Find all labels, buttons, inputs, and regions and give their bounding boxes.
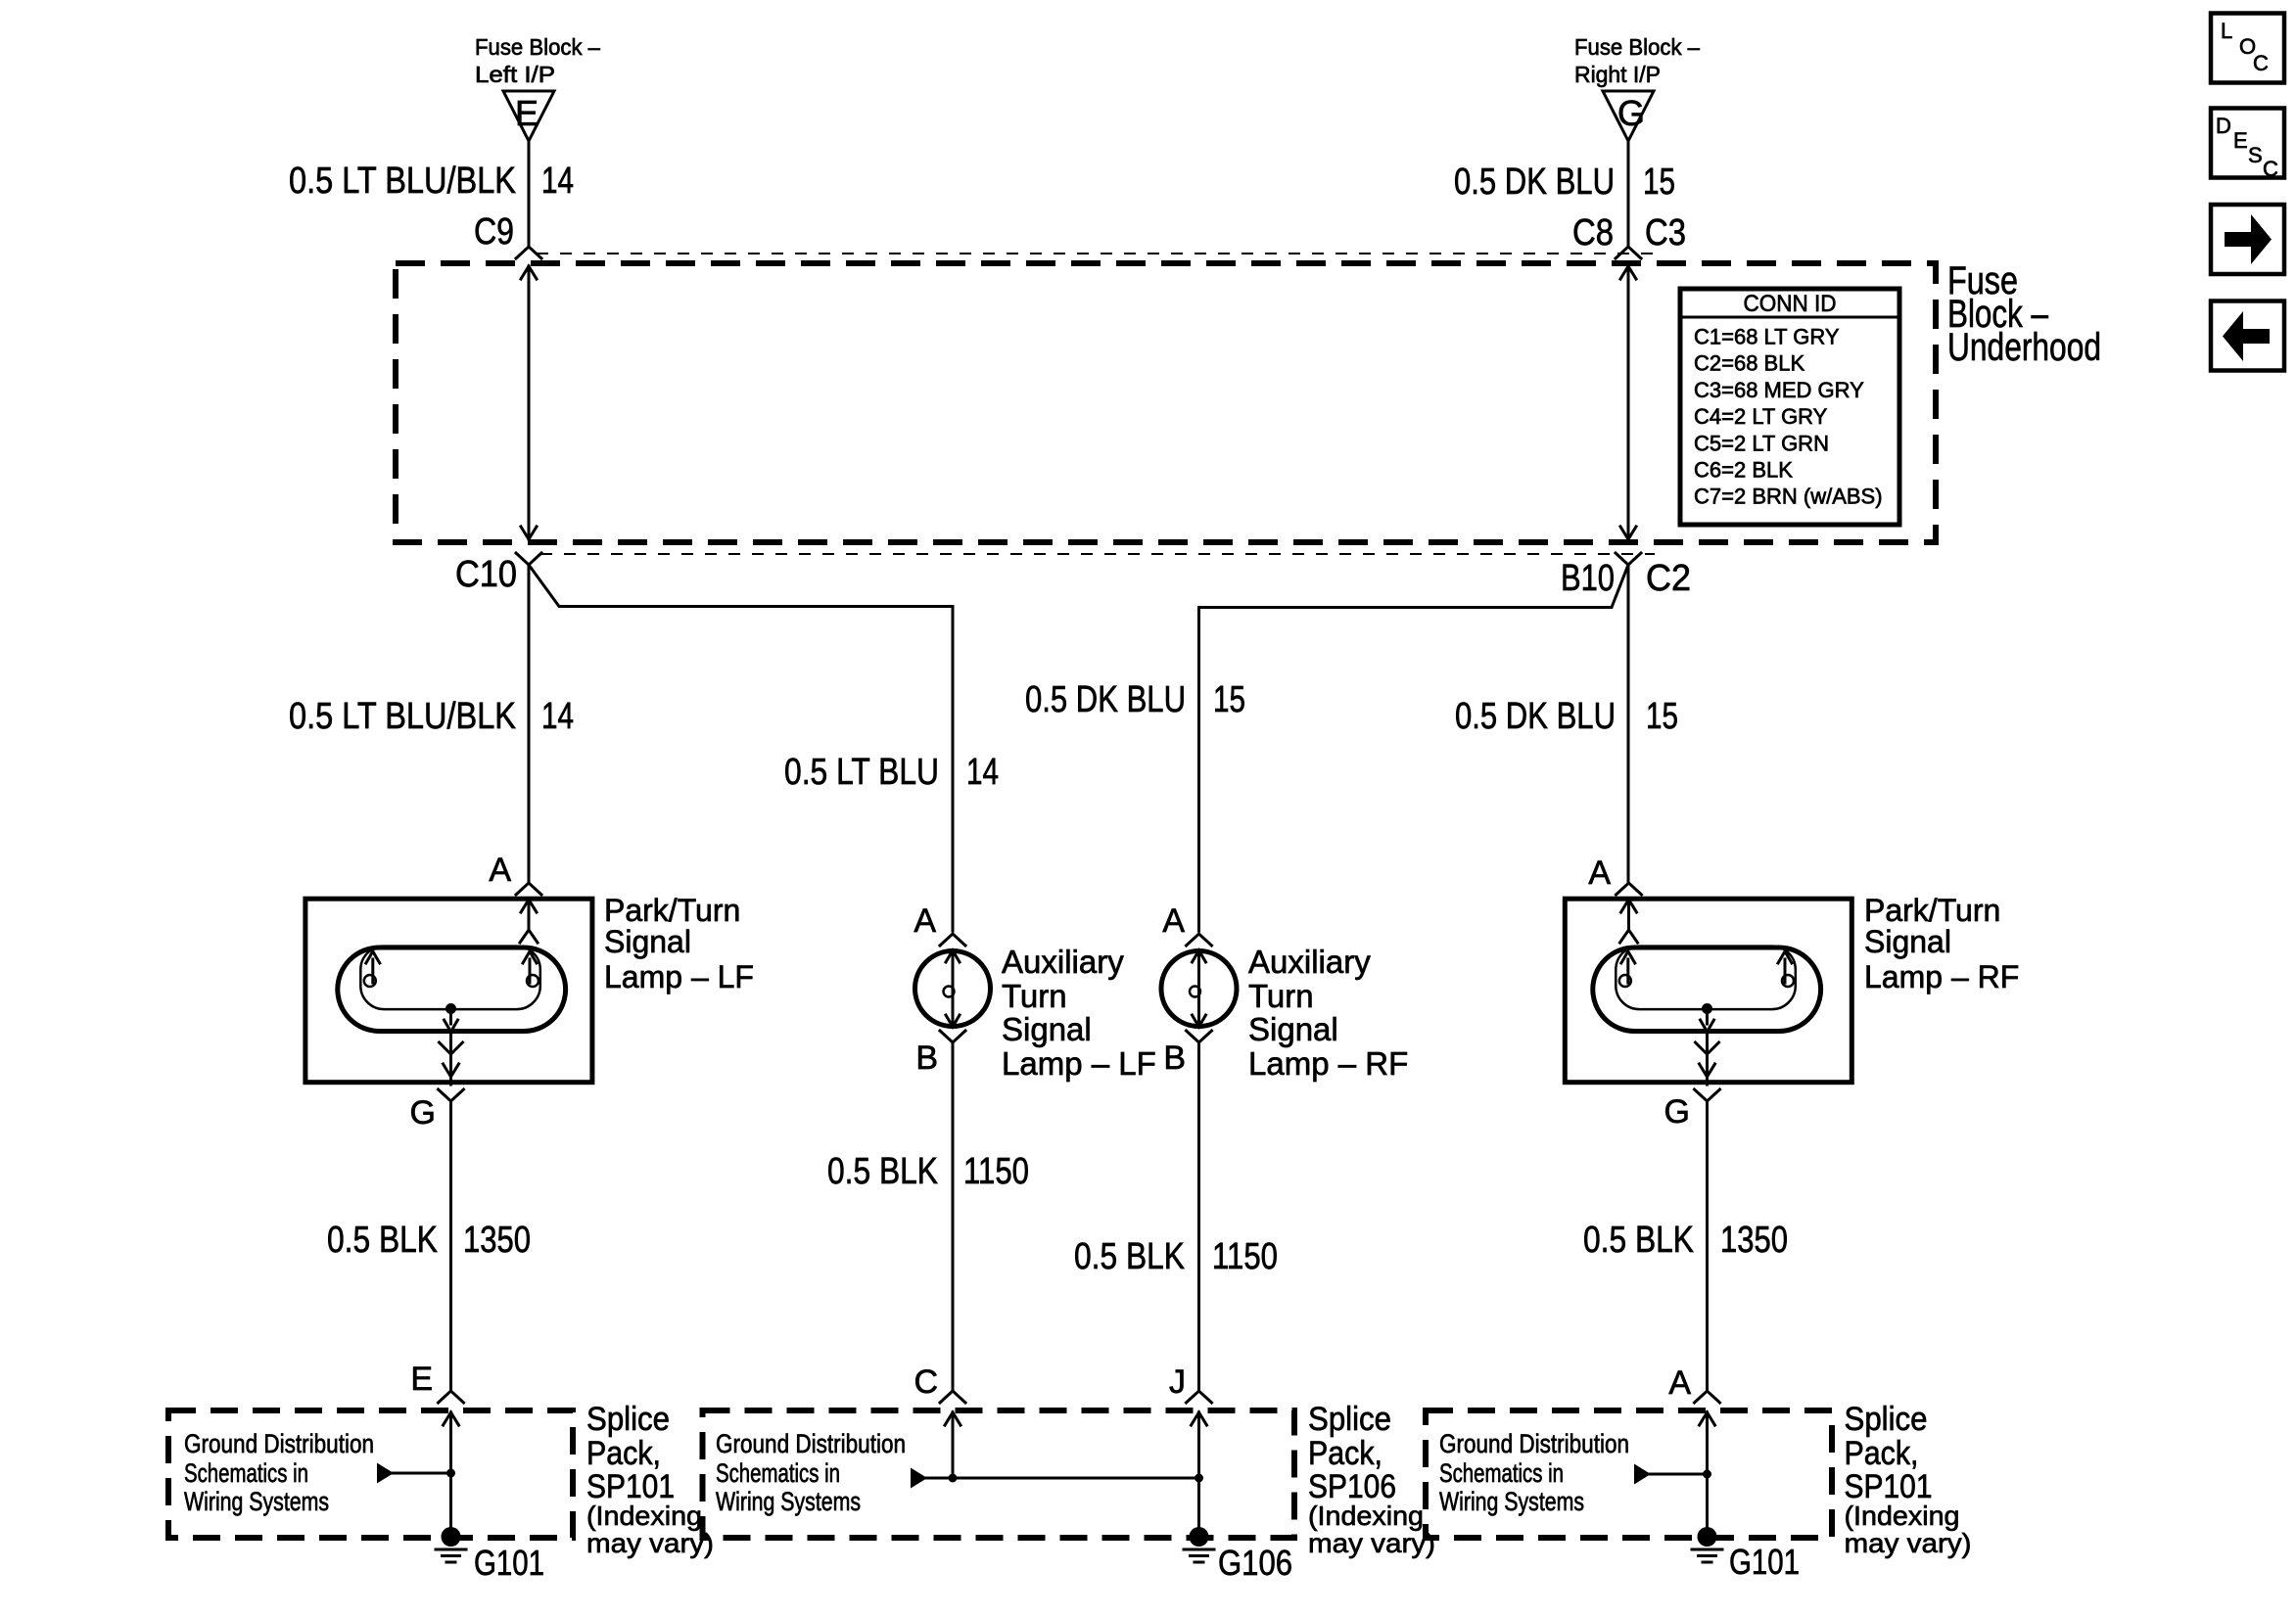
- svg-text:B10: B10: [1561, 558, 1615, 599]
- wire into splice SP101 (right): [1700, 1412, 1715, 1537]
- node B10 / C2 (female connector half): [1561, 553, 1691, 599]
- svg-text:C2=68 BLK: C2=68 BLK: [1694, 351, 1804, 376]
- ground distribution box (right): [1426, 1410, 1832, 1538]
- terminal C at splice pack SP106: [914, 1363, 965, 1403]
- svg-text:Auxiliary: Auxiliary: [1248, 944, 1371, 980]
- wire label 0.5 BLK 1150 (aux LF): [827, 1151, 1029, 1192]
- svg-text:A: A: [489, 852, 511, 889]
- wire 0.5 BLK 1150 from aux LF B to splice C: [952, 1042, 955, 1391]
- svg-text:Wiring Systems: Wiring Systems: [184, 1487, 329, 1516]
- svg-text:1350: 1350: [463, 1220, 531, 1261]
- svg-text:Splice: Splice: [1308, 1401, 1391, 1438]
- svg-text:G: G: [1617, 93, 1645, 133]
- svg-text:J: J: [1169, 1363, 1186, 1401]
- svg-text:0.5 DK BLU: 0.5 DK BLU: [1454, 162, 1615, 203]
- svg-text:Turn: Turn: [1002, 978, 1067, 1014]
- svg-text:1150: 1150: [1212, 1236, 1278, 1277]
- svg-text:Schematics in: Schematics in: [1439, 1458, 1564, 1488]
- wire label 0.5 BLK 1150 (aux RF): [1074, 1236, 1278, 1277]
- svg-text:C5=2 LT GRN: C5=2 LT GRN: [1694, 431, 1829, 455]
- svg-text:14: 14: [966, 752, 999, 793]
- svg-text:Wiring Systems: Wiring Systems: [716, 1487, 861, 1516]
- terminal J at splice pack SP106: [1169, 1363, 1212, 1403]
- terminal G of park/turn lamp RF: [1664, 1089, 1720, 1131]
- ground G101-left: [436, 1527, 544, 1583]
- svg-text:C9: C9: [474, 211, 514, 253]
- svg-text:Fuse Block –: Fuse Block –: [1574, 34, 1700, 60]
- svg-text:0.5 DK BLU: 0.5 DK BLU: [1025, 679, 1186, 720]
- wire 0.5 DK BLU 15 from C2 to lamp RF terminal A: [1627, 565, 1630, 883]
- svg-text:Lamp – RF: Lamp – RF: [1864, 959, 2019, 994]
- svg-text:Auxiliary: Auxiliary: [1002, 944, 1124, 980]
- terminal B of auxiliary lamp LF: [915, 1031, 965, 1077]
- svg-text:Wiring Systems: Wiring Systems: [1439, 1487, 1584, 1516]
- terminal A of auxiliary lamp LF: [914, 902, 965, 946]
- connector symbol G : Fuse Block - Right I/P: [1574, 34, 1700, 141]
- splice SP101 branch arrow (left): [377, 1463, 455, 1484]
- svg-text:Lamp – LF: Lamp – LF: [604, 959, 754, 994]
- svg-text:may vary): may vary): [586, 1528, 714, 1558]
- DESC nav box: [2211, 109, 2284, 182]
- svg-text:0.5 LT BLU/BLK: 0.5 LT BLU/BLK: [289, 161, 516, 202]
- park/turn signal lamp RF: [1565, 893, 2019, 1085]
- svg-text:L: L: [2221, 19, 2232, 43]
- svg-text:Pack,: Pack,: [1308, 1435, 1382, 1472]
- svg-text:Splice: Splice: [1845, 1401, 1928, 1438]
- ground distribution box (center): [703, 1410, 1295, 1538]
- connector line C9/C8 (thin dashed): [537, 253, 1664, 254]
- auxiliary turn signal lamp LF: [915, 944, 1156, 1082]
- svg-text:C2: C2: [1646, 558, 1691, 599]
- svg-text:(Indexing: (Indexing: [586, 1501, 702, 1531]
- fuse block - underhood (dashed outline): [396, 263, 1936, 542]
- svg-text:B: B: [1163, 1039, 1186, 1077]
- svg-text:C: C: [2253, 51, 2269, 75]
- svg-text:15: 15: [1646, 696, 1678, 737]
- wire 0.5 BLK 1350 from lamp RF G to splice A: [1706, 1101, 1709, 1391]
- node C10 (female connector half): [455, 553, 541, 595]
- ground G106: [1184, 1527, 1292, 1583]
- terminal E at splice pack SP101: [410, 1361, 463, 1403]
- connector symbol E : Fuse Block - Left I/P: [475, 34, 600, 141]
- svg-text:0.5 BLK: 0.5 BLK: [1583, 1220, 1694, 1261]
- svg-text:C4=2 LT GRY: C4=2 LT GRY: [1694, 404, 1828, 429]
- svg-text:Ground Distribution: Ground Distribution: [184, 1429, 374, 1458]
- wire into splice SP106 from C: [945, 1412, 961, 1478]
- svg-text:E: E: [515, 93, 539, 133]
- wire inside fuse block C9 to C10: [521, 266, 537, 539]
- splice pack SP101 label (left): [586, 1401, 714, 1558]
- ground distribution box (left): [168, 1410, 573, 1538]
- wire 0.5 BLK 1150 from aux RF B to splice J: [1197, 1042, 1200, 1391]
- splice pack SP106 label: [1308, 1401, 1435, 1558]
- svg-text:S: S: [2248, 143, 2263, 167]
- svg-text:15: 15: [1213, 679, 1245, 720]
- svg-text:Schematics in: Schematics in: [184, 1458, 308, 1488]
- svg-text:C: C: [2263, 157, 2278, 181]
- svg-text:Pack,: Pack,: [1845, 1435, 1919, 1472]
- svg-text:Lamp – LF: Lamp – LF: [1002, 1045, 1156, 1082]
- wire label 0.5 DK BLU 15: [1454, 162, 1675, 203]
- svg-text:C3=68 MED GRY: C3=68 MED GRY: [1694, 378, 1864, 402]
- svg-text:C8: C8: [1572, 212, 1614, 254]
- svg-text:Turn: Turn: [1248, 978, 1314, 1014]
- LOC nav box: [2211, 14, 2284, 83]
- svg-text:Signal: Signal: [1864, 924, 1951, 959]
- svg-text:G101: G101: [1729, 1542, 1800, 1582]
- svg-text:(Indexing: (Indexing: [1308, 1501, 1424, 1531]
- svg-text:0.5 BLK: 0.5 BLK: [827, 1151, 938, 1192]
- wire inside fuse block C3 to B10: [1620, 266, 1636, 539]
- wire 0.5 BLK 1350 from lamp LF G to splice E: [449, 1101, 452, 1391]
- svg-text:Left I/P: Left I/P: [475, 62, 555, 87]
- svg-text:C1=68 LT GRY: C1=68 LT GRY: [1694, 325, 1840, 349]
- svg-text:A: A: [1668, 1364, 1691, 1402]
- svg-text:Pack,: Pack,: [586, 1435, 661, 1472]
- svg-text:D: D: [2216, 114, 2231, 138]
- svg-text:1350: 1350: [1720, 1220, 1788, 1261]
- CONN ID table: [1680, 289, 1899, 525]
- svg-text:Park/Turn: Park/Turn: [604, 893, 740, 928]
- svg-text:(Indexing: (Indexing: [1845, 1501, 1960, 1531]
- svg-text:Signal: Signal: [1248, 1011, 1338, 1047]
- ground G101-right: [1692, 1527, 1800, 1582]
- svg-text:0.5 BLK: 0.5 BLK: [327, 1220, 438, 1261]
- park/turn signal lamp LF: [305, 893, 754, 1085]
- terminal A of auxiliary lamp RF: [1162, 902, 1211, 946]
- connector line C10/B10 (thin dashed): [540, 553, 1655, 555]
- auxiliary turn signal lamp RF: [1161, 944, 1408, 1082]
- node C8 / C3 (female connector half): [1572, 212, 1686, 258]
- next-page arrow box: [2211, 205, 2284, 274]
- wire branch B10 to auxiliary lamp RF (0.5 DK BLU 15): [1199, 565, 1629, 931]
- wire 0.5 LT BLU/BLK circuit 14 (fuse block E to C9): [528, 141, 531, 247]
- svg-text:A: A: [914, 902, 936, 940]
- wire label 0.5 LT BLU 14: [784, 752, 999, 793]
- svg-text:Signal: Signal: [1002, 1011, 1092, 1047]
- wire branch C10 to auxiliary lamp LF (0.5 LT BLU 14): [529, 565, 953, 931]
- wire label 0.5 DK BLU 15 (lamp RF): [1455, 696, 1678, 737]
- svg-text:C: C: [914, 1363, 938, 1401]
- svg-text:G101: G101: [474, 1543, 544, 1583]
- svg-text:Schematics in: Schematics in: [716, 1458, 840, 1488]
- svg-text:0.5 DK BLU: 0.5 DK BLU: [1455, 696, 1616, 737]
- wire label 0.5 LT BLU/BLK 14: [289, 696, 574, 737]
- svg-text:A: A: [1162, 902, 1185, 940]
- svg-text:G: G: [1664, 1093, 1690, 1131]
- svg-text:C10: C10: [455, 554, 517, 595]
- svg-text:0.5 LT BLU/BLK: 0.5 LT BLU/BLK: [289, 696, 516, 737]
- svg-text:Underhood: Underhood: [1947, 326, 2101, 369]
- terminal B of auxiliary lamp RF: [1163, 1031, 1211, 1077]
- previous-page arrow box: [2211, 301, 2284, 371]
- svg-text:may vary): may vary): [1845, 1528, 1972, 1558]
- svg-text:Lamp – RF: Lamp – RF: [1248, 1045, 1408, 1082]
- svg-text:Fuse Block –: Fuse Block –: [475, 34, 600, 60]
- svg-text:Signal: Signal: [604, 924, 691, 959]
- svg-text:1150: 1150: [963, 1151, 1029, 1192]
- svg-text:Park/Turn: Park/Turn: [1864, 893, 2000, 928]
- svg-text:15: 15: [1643, 162, 1675, 203]
- svg-text:C6=2 BLK: C6=2 BLK: [1694, 458, 1793, 483]
- fuse block - underhood label: [1947, 259, 2101, 369]
- splice SP101 branch arrow (right): [1634, 1464, 1711, 1485]
- wire 0.5 LT BLU/BLK 14 from C10 to lamp LF terminal A: [528, 565, 531, 883]
- wire into splice SP106 from J: [1192, 1412, 1207, 1537]
- svg-text:C3: C3: [1645, 212, 1686, 254]
- svg-text:0.5 LT BLU: 0.5 LT BLU: [784, 752, 939, 793]
- wire label 0.5 BLK 1350 (right): [1583, 1220, 1788, 1261]
- svg-text:14: 14: [541, 161, 574, 202]
- svg-text:B: B: [915, 1039, 938, 1077]
- svg-text:Right I/P: Right I/P: [1574, 62, 1661, 87]
- svg-text:may vary): may vary): [1308, 1528, 1435, 1558]
- wire 0.5 DK BLU circuit 15 (fuse block G to C8): [1627, 141, 1630, 247]
- svg-text:A: A: [1588, 855, 1611, 892]
- svg-text:C7=2 BRN (w/ABS): C7=2 BRN (w/ABS): [1694, 485, 1883, 509]
- svg-text:G: G: [410, 1094, 436, 1132]
- svg-text:14: 14: [541, 696, 574, 737]
- svg-text:E: E: [410, 1361, 433, 1398]
- wire label 0.5 BLK 1350 (left): [327, 1220, 531, 1261]
- wire into splice SP101 (left): [444, 1412, 459, 1537]
- terminal A of park/turn lamp LF: [489, 852, 541, 895]
- node C9 (female connector half): [474, 211, 541, 258]
- terminal G of park/turn lamp LF: [410, 1089, 464, 1132]
- svg-text:E: E: [2233, 128, 2248, 153]
- wire label 0.5 LT BLU/BLK 14: [289, 161, 574, 202]
- terminal A of park/turn lamp RF: [1588, 855, 1641, 895]
- splice pack SP101 label (right): [1845, 1401, 1972, 1558]
- svg-text:Ground Distribution: Ground Distribution: [716, 1429, 906, 1458]
- svg-text:Splice: Splice: [586, 1401, 670, 1438]
- svg-text:CONN ID: CONN ID: [1744, 291, 1837, 317]
- terminal A at splice pack SP101 (right): [1668, 1364, 1719, 1403]
- svg-text:Ground Distribution: Ground Distribution: [1439, 1429, 1629, 1458]
- svg-text:0.5 BLK: 0.5 BLK: [1074, 1236, 1185, 1277]
- wire label 0.5 DK BLU 15 (aux RF): [1025, 679, 1245, 720]
- splice SP106 branch arrow: [911, 1468, 1203, 1489]
- svg-text:G106: G106: [1218, 1543, 1292, 1583]
